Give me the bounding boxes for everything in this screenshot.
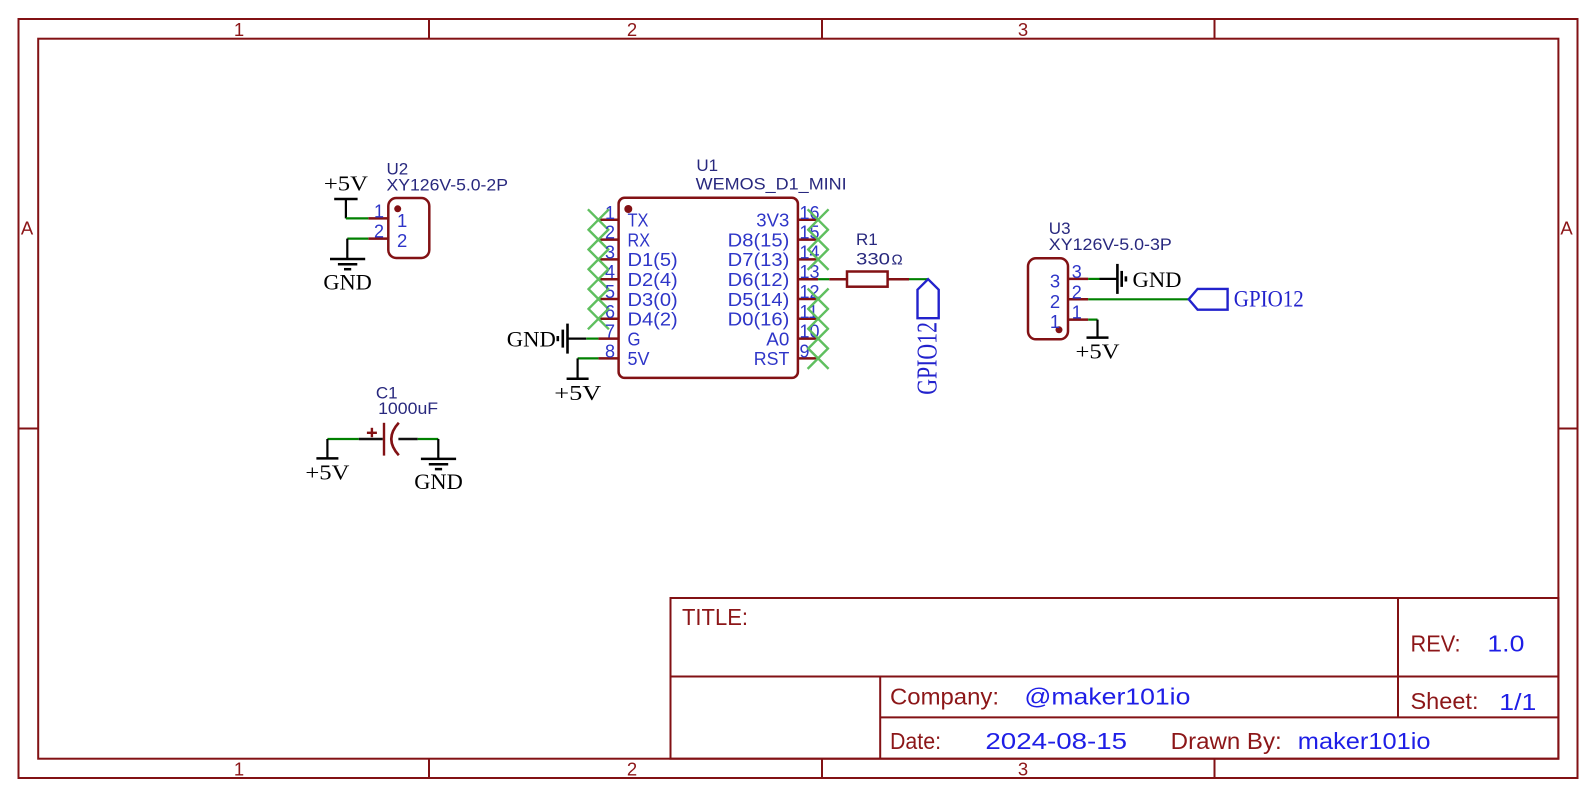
svg-text:1: 1 [374, 201, 384, 221]
svg-text:GPIO12: GPIO12 [913, 322, 944, 395]
svg-text:5V: 5V [628, 349, 650, 369]
svg-text:GPIO12: GPIO12 [1234, 286, 1304, 311]
svg-text:3: 3 [1018, 759, 1028, 780]
svg-text:Ω: Ω [892, 251, 903, 268]
svg-text:D2(4): D2(4) [628, 270, 678, 290]
svg-text:330: 330 [856, 249, 890, 268]
svg-text:+5V: +5V [305, 460, 349, 484]
svg-text:XY126V-5.0-3P: XY126V-5.0-3P [1049, 235, 1172, 254]
svg-text:RST: RST [754, 349, 790, 369]
svg-text:GND: GND [507, 327, 556, 352]
svg-text:A0: A0 [766, 329, 789, 349]
svg-text:9: 9 [800, 341, 810, 361]
svg-text:3V3: 3V3 [756, 211, 789, 231]
svg-text:REV:: REV: [1411, 631, 1461, 657]
svg-text:A: A [1560, 218, 1573, 239]
svg-text:TX: TX [628, 211, 649, 231]
svg-text:D7(13): D7(13) [728, 250, 790, 270]
svg-text:2: 2 [627, 759, 637, 780]
svg-text:7: 7 [605, 322, 615, 342]
svg-text:11: 11 [800, 302, 819, 322]
svg-text:A: A [21, 218, 34, 239]
svg-text:D1(5): D1(5) [628, 250, 678, 270]
svg-text:13: 13 [800, 262, 820, 282]
svg-text:2: 2 [627, 19, 637, 40]
svg-text:+5V: +5V [554, 381, 601, 405]
svg-text:D5(14): D5(14) [728, 290, 790, 310]
svg-text:2: 2 [374, 222, 384, 242]
svg-text:D3(0): D3(0) [628, 290, 678, 310]
svg-text:1: 1 [234, 759, 244, 780]
svg-text:1.0: 1.0 [1487, 631, 1524, 657]
svg-text:3: 3 [1018, 19, 1028, 40]
svg-text:U1: U1 [696, 156, 718, 175]
svg-text:+5V: +5V [324, 172, 368, 196]
svg-text:2: 2 [1050, 291, 1060, 312]
svg-text:XY126V-5.0-2P: XY126V-5.0-2P [387, 175, 509, 194]
svg-text:D8(15): D8(15) [728, 230, 790, 250]
svg-text:2: 2 [1072, 282, 1082, 302]
svg-text:1000uF: 1000uF [378, 399, 438, 418]
svg-text:GND: GND [414, 469, 463, 494]
svg-text:GND: GND [1133, 267, 1182, 292]
svg-text:D0(16): D0(16) [728, 310, 790, 330]
svg-text:1: 1 [1050, 311, 1060, 332]
svg-text:3: 3 [1050, 271, 1060, 292]
svg-text:G: G [628, 329, 641, 349]
svg-text:Date:: Date: [890, 728, 941, 754]
svg-text:maker101io: maker101io [1298, 728, 1431, 754]
svg-text:RX: RX [628, 230, 651, 250]
svg-text:8: 8 [605, 341, 615, 361]
svg-text:GND: GND [323, 269, 372, 294]
svg-text:2: 2 [397, 230, 407, 251]
svg-text:2024-08-15: 2024-08-15 [985, 728, 1127, 754]
svg-text:+5V: +5V [1076, 340, 1120, 364]
svg-text:WEMOS_D1_MINI: WEMOS_D1_MINI [696, 174, 847, 193]
svg-text:TITLE:: TITLE: [682, 604, 748, 630]
svg-text:1: 1 [1072, 303, 1082, 323]
svg-text:3: 3 [1072, 262, 1082, 282]
svg-text:Sheet:: Sheet: [1411, 688, 1479, 714]
svg-text:D6(12): D6(12) [728, 270, 790, 290]
svg-text:1: 1 [397, 210, 407, 231]
svg-text:Company:: Company: [890, 684, 999, 710]
svg-text:D4(2): D4(2) [628, 310, 678, 330]
svg-text:1/1: 1/1 [1499, 689, 1536, 715]
svg-text:@maker101io: @maker101io [1024, 684, 1190, 710]
svg-text:Drawn By:: Drawn By: [1171, 728, 1282, 754]
svg-text:1: 1 [234, 19, 244, 40]
svg-text:R1: R1 [856, 230, 878, 249]
